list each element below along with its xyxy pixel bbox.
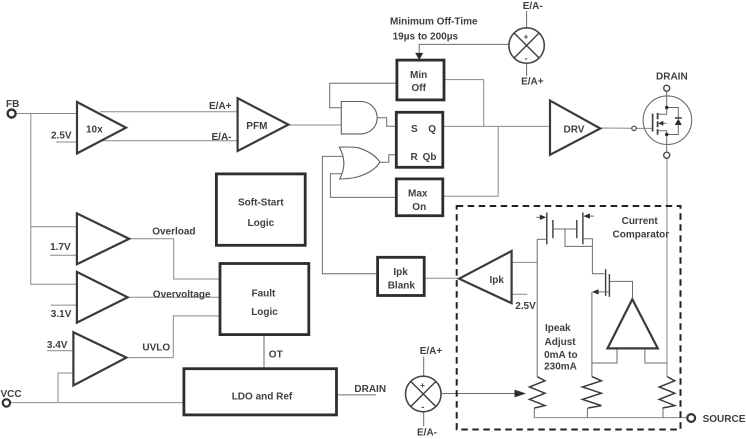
wire Max On output up to Q line: [442, 126, 498, 196]
svg-text:+: +: [524, 33, 529, 42]
label Ipeak Adjust range: [544, 323, 578, 373]
wire middle resistor bottom stub: [586, 408, 588, 418]
svg-text:LDO and Ref: LDO and Ref: [232, 391, 293, 402]
wire AND top input to Min Off box: [330, 83, 397, 108]
label Overload: [152, 227, 195, 238]
wire bottom summer top stub: [423, 357, 425, 377]
svg-text:230mA: 230mA: [544, 361, 577, 372]
or gate U4: [339, 147, 380, 179]
svg-text:Current: Current: [622, 216, 659, 227]
svg-text:E/A-: E/A-: [523, 1, 543, 12]
label E/A+ below top summer: [521, 76, 544, 87]
op-amp overload comparator: [77, 213, 129, 264]
svg-text:1.7V: 1.7V: [50, 242, 71, 253]
svg-text:R: R: [411, 152, 419, 163]
wire overload output to fault logic: [124, 239, 220, 279]
label OT: [269, 350, 283, 361]
block Min Off: [397, 60, 444, 100]
summer bottom E/A: [406, 376, 442, 412]
op-amp Ipk comparator: [459, 251, 512, 303]
svg-text:DRAIN: DRAIN: [354, 384, 386, 395]
svg-text:Max: Max: [408, 188, 428, 199]
terminal DRAIN top: [656, 72, 688, 92]
svg-text:19µs to 200µs: 19µs to 200µs: [393, 32, 459, 43]
wire VCC rail to LDO: [11, 402, 184, 404]
label Minimum Off-Time: [390, 17, 478, 43]
wire UVLO lower input from VCC rail: [58, 373, 73, 403]
svg-text:DRAIN: DRAIN: [656, 72, 688, 83]
terminal VCC: [1, 389, 22, 407]
node DRV gate: [632, 126, 636, 130]
svg-text:E/A+: E/A+: [420, 346, 443, 357]
wire FB to 10x amp: [17, 113, 90, 115]
svg-text:Qb: Qb: [423, 152, 437, 163]
wire Ipk bottom input 2.5V stub: [512, 293, 527, 295]
wire 1.7V stub: [50, 254, 77, 256]
label 3.4V reference: [47, 340, 68, 351]
block Soft-Start Logic: [216, 174, 305, 245]
svg-text:Q: Q: [428, 124, 436, 135]
svg-text:Minimum Off-Time: Minimum Off-Time: [390, 17, 478, 28]
wire comparator right input: [645, 348, 667, 363]
svg-text:On: On: [412, 202, 426, 213]
wire 3.1V stub: [51, 304, 77, 306]
svg-text:DRV: DRV: [564, 124, 585, 135]
svg-text:UVLO: UVLO: [142, 343, 170, 354]
svg-text:Blank: Blank: [388, 280, 416, 291]
wire FB feedback vertical to comparators: [31, 114, 77, 285]
op-amp current comparator amplifier: [608, 299, 658, 348]
label E/A- 10x output: [212, 132, 232, 143]
transistor M1 power MOSFET in circle: [643, 96, 692, 145]
svg-text:+: +: [420, 381, 425, 390]
svg-text:Ipk: Ipk: [393, 267, 408, 278]
svg-text:Ipk: Ipk: [490, 275, 505, 286]
label E/A- below bottom summer: [417, 428, 437, 439]
wire Ipk Blank to Ipk comparator: [424, 277, 461, 279]
svg-text:2.5V: 2.5V: [515, 301, 536, 312]
svg-text:E/A+: E/A+: [521, 76, 544, 87]
svg-text:E/A+: E/A+: [209, 101, 232, 112]
svg-text:3.1V: 3.1V: [51, 309, 72, 320]
wire OR top input to Ipk Blank output: [322, 156, 377, 273]
label UVLO: [142, 343, 170, 354]
wire gate node to MOSFET gate: [636, 127, 652, 129]
svg-text:2.5V: 2.5V: [51, 130, 72, 141]
svg-text:PFM: PFM: [246, 121, 267, 132]
wire OT fault logic to LDO: [263, 335, 265, 369]
wire DRAIN terminal to MOSFET: [666, 91, 668, 107]
svg-text:OT: OT: [269, 350, 283, 361]
label 1.7V reference: [50, 242, 71, 253]
wire middle column NMOS source to middle resistor: [591, 292, 593, 377]
svg-text:0mA to: 0mA to: [544, 350, 578, 361]
svg-text:Overvoltage: Overvoltage: [153, 290, 211, 301]
summer top E/A: [509, 28, 544, 64]
transistor Q2 right PMOS of mirror: [565, 213, 604, 274]
label Current Comparator: [613, 216, 670, 241]
label E/A+ 10x output: [209, 101, 232, 112]
svg-text:Logic: Logic: [251, 307, 278, 318]
svg-text:Logic: Logic: [248, 218, 275, 229]
wire UVLO output to fault logic: [121, 316, 220, 358]
svg-text:VCC: VCC: [1, 389, 22, 400]
dashed current comparator boundary: [457, 206, 681, 430]
label 2.5V at Ipk: [515, 301, 536, 312]
wire left resistor bottom stub: [533, 408, 535, 418]
label 3.1V reference: [51, 309, 72, 320]
wire left column PMOS to left resistor: [536, 239, 538, 376]
wire Ipk top input to left column: [512, 261, 538, 263]
svg-text:S: S: [411, 124, 418, 135]
op-amp UVLO comparator: [73, 332, 126, 385]
wire Min Off output down to Q line: [444, 80, 484, 127]
label DRAIN at LDO: [354, 384, 386, 395]
wire right resistor bottom stub: [662, 408, 664, 418]
resistor R3 right sense: [659, 377, 675, 408]
wire comparator left input: [592, 348, 617, 363]
svg-text:-: -: [421, 402, 424, 412]
wire overvoltage output to fault logic: [122, 296, 220, 298]
wire summer bottom stub E/A+: [526, 63, 528, 76]
svg-text:Comparator: Comparator: [613, 230, 670, 241]
op-amp PFM comparator: [238, 98, 289, 151]
wire 3.4V stub: [47, 350, 73, 352]
block SR latch: [396, 112, 443, 167]
wire DRV output to gate node: [601, 127, 632, 129]
wire AND output to latch S input: [377, 118, 396, 127]
svg-text:FB: FB: [6, 99, 19, 110]
svg-text:10x: 10x: [86, 124, 103, 135]
wire bottom rail to SOURCE: [534, 417, 687, 419]
wire PFM output to AND gate: [282, 124, 341, 126]
svg-text:3.4V: 3.4V: [47, 340, 68, 351]
svg-text:Min: Min: [410, 70, 427, 81]
block Fault Logic: [220, 264, 309, 335]
transistor Q3 NMOS: [592, 269, 633, 298]
terminal FB: [6, 99, 19, 118]
wire OR bottom input to Max On box: [330, 174, 396, 198]
block LDO and Ref: [184, 369, 337, 415]
label Overvoltage: [153, 290, 211, 301]
svg-text:Off: Off: [412, 83, 427, 94]
svg-text:E/A-: E/A-: [212, 132, 232, 143]
wire LDO DRAIN stub: [337, 394, 377, 396]
terminal SOURCE: [687, 414, 745, 425]
svg-text:Ipeak: Ipeak: [545, 323, 571, 334]
svg-text:-: -: [525, 54, 528, 64]
block Ipk Blank: [378, 257, 425, 295]
svg-text:Overload: Overload: [152, 227, 195, 238]
and gate U3: [341, 102, 377, 134]
wire summer to Min Off with arrow: [415, 44, 509, 60]
svg-text:Fault: Fault: [252, 288, 277, 299]
wire latch Q output to DRV: [442, 125, 550, 127]
svg-text:SOURCE: SOURCE: [703, 414, 746, 425]
label E/A+ above bottom summer: [420, 346, 443, 357]
wire summer top stub E/A-: [526, 11, 528, 28]
label E/A- top summer: [523, 1, 543, 12]
wire 2.5V reference stub into 10x amp: [56, 141, 85, 143]
buffer DRV driver: [550, 101, 600, 155]
terminal MOSFET source node: [664, 152, 670, 158]
wire E/A- from 10x to PFM: [100, 140, 238, 142]
block Max On: [396, 179, 443, 216]
resistor R1 left sense: [529, 377, 545, 408]
op-amp 10x error amplifier: [77, 102, 126, 153]
wire E/A+ from 10x to PFM: [100, 111, 238, 113]
label 2.5V reference: [51, 130, 72, 141]
wire OR output to latch R input: [380, 155, 396, 162]
transistor Q1 left PMOS of mirror: [536, 213, 565, 245]
svg-text:Adjust: Adjust: [545, 337, 577, 348]
wire bottom summer bottom stub: [423, 412, 425, 426]
wire MOSFET source column to right resistor: [666, 158, 668, 376]
resistor R2 middle sense: [582, 377, 601, 408]
svg-text:Soft-Start: Soft-Start: [238, 197, 284, 208]
op-amp overvoltage comparator: [77, 272, 128, 323]
svg-text:E/A-: E/A-: [417, 428, 437, 439]
wire MOSFET source to source terminal: [666, 135, 668, 153]
wire bottom summer arrow to left resistor: [441, 390, 526, 398]
